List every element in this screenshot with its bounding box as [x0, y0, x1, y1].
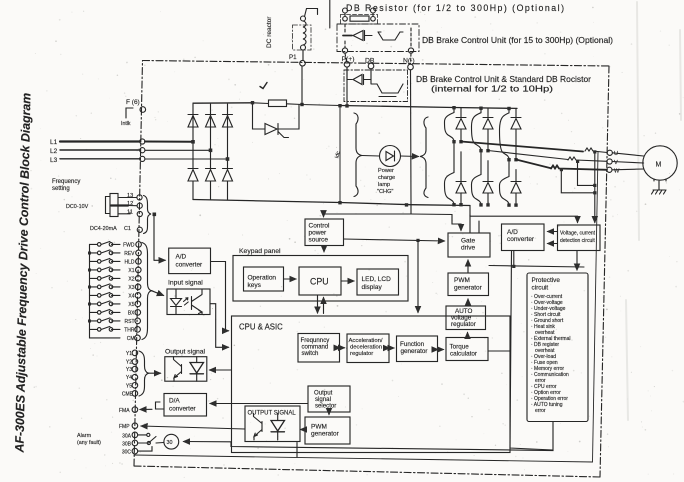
svg-text:30: 30 [167, 440, 173, 446]
power charge lamp CHG [362, 146, 419, 167]
svg-text:U: U [614, 151, 618, 157]
label DB Brake Control Unit internal [416, 75, 591, 94]
wire AUTO vreg to PWM [467, 299, 469, 306]
svg-text:drive: drive [461, 245, 475, 252]
svg-text:L1: L1 [50, 139, 58, 146]
IGBT leg2 upper transistor [472, 108, 482, 150]
svg-text:Frequency: Frequency [52, 179, 80, 185]
digital input terminals column [123, 242, 135, 342]
rectifier bridge: lower diode D6 [223, 159, 233, 200]
wire torque calc to AUTO vreg [467, 333, 469, 338]
svg-text:X1: X1 [128, 268, 134, 274]
motor ground [652, 181, 667, 194]
wire P(+) down to top bus [346, 67, 348, 106]
svg-text:X5: X5 [128, 302, 134, 308]
inverter junction dots [452, 106, 517, 207]
output signal selector box [308, 386, 350, 412]
rectifier bridge: upper diode D1 [188, 115, 198, 128]
alarm relay terminals [122, 433, 132, 455]
svg-text:lamp: lamp [378, 182, 390, 188]
phase V output wire [488, 151, 607, 162]
terminal 12 [127, 201, 142, 208]
svg-text:"CHG": "CHG" [377, 189, 393, 195]
input signal box [167, 289, 210, 315]
top DC bus (right section) [340, 106, 517, 109]
wires CPU to CPU&ASIC [318, 295, 324, 313]
wire control power to gate drive [344, 239, 445, 241]
capacitor bank right plate (brace) [420, 117, 433, 198]
terminal C1 [137, 227, 142, 232]
enclosure outer dash-dot border [134, 61, 609, 478]
wire operation keys to CPU [284, 278, 297, 280]
wire freq cmd to accel [340, 347, 345, 349]
svg-text:DB Resistor (for 1/2 to 300Hp): DB Resistor (for 1/2 to 300Hp) (Optional… [346, 3, 564, 13]
svg-text:regulator: regulator [350, 351, 373, 357]
A/D converter box (left) [169, 248, 211, 274]
wire OUTPUT SIGNAL box down [296, 443, 298, 458]
svg-text:setting: setting [52, 186, 70, 192]
CPU box [299, 267, 341, 295]
gate drive box [448, 233, 490, 257]
A/D converter box (right) [502, 224, 545, 251]
svg-text:source: source [309, 237, 329, 244]
phase W output wire [516, 160, 607, 170]
wire CPU to LED LCD [342, 280, 355, 282]
IGBT leg3 lower freewheel diode [511, 170, 521, 205]
svg-text:REV: REV [124, 251, 135, 257]
svg-text:DC reactor: DC reactor [266, 16, 273, 48]
svg-text:HLD: HLD [124, 259, 134, 265]
wire selector to PWM generator bottom [328, 413, 330, 415]
IGBT leg2 upper freewheel diode [483, 108, 493, 150]
bypass SCR [253, 103, 300, 138]
stray vertical mark above DB resistor [329, 0, 331, 28]
svg-text:keys: keys [248, 282, 262, 289]
frequency command switch box [298, 334, 340, 363]
output terminal circles [132, 350, 138, 396]
svg-text:FWD: FWD [123, 242, 135, 248]
wire N(-) down to bottom bus [410, 70, 413, 205]
svg-text:BX: BX [128, 310, 135, 316]
svg-text:generator: generator [311, 431, 340, 438]
svg-text:30A: 30A [122, 433, 132, 439]
alarm label [77, 433, 101, 446]
internal DB brake unit dash-dot box [344, 70, 408, 102]
svg-text:(any fault): (any fault) [77, 440, 101, 446]
svg-text:DC4-20mA: DC4-20mA [90, 226, 117, 232]
svg-text:AF-300ES Adjustable Frequency: AF-300ES Adjustable Frequency Drive Cont… [12, 93, 33, 454]
switch common bus [88, 244, 120, 338]
relay contacts [138, 433, 164, 451]
svg-text:power: power [309, 230, 328, 237]
PWM generator box (bottom) [305, 417, 350, 444]
wire A/D left into CPU&ASIC [211, 262, 229, 331]
wire P1 down to DC bus [302, 66, 340, 106]
digital input terminal circles [135, 242, 142, 341]
wire protective circuit to alarm relay [184, 422, 554, 451]
IGBT leg3 lower transistor [500, 159, 510, 205]
svg-text:Control: Control [309, 223, 331, 230]
svg-text:error: error [535, 408, 546, 414]
svg-text:30B: 30B [122, 442, 132, 448]
svg-text:Y2: Y2 [126, 360, 132, 366]
svg-text:DC0-10V: DC0-10V [66, 204, 89, 210]
optional brake unit transistor [378, 32, 403, 40]
svg-text:circuit: circuit [532, 285, 549, 292]
motor M [612, 146, 677, 181]
svg-text:F (6): F (6) [126, 99, 140, 106]
wire inputs to input signal box [152, 291, 164, 296]
alarm relay coil 30 [164, 434, 179, 449]
svg-text:P1: P1 [289, 54, 297, 61]
svg-text:generator: generator [454, 285, 483, 292]
IGBT leg1 lower transistor [445, 142, 455, 205]
wire DC bus to gate drive power [411, 214, 461, 231]
IGBT leg1 lower freewheel diode [456, 152, 466, 205]
svg-text:selector: selector [315, 403, 336, 410]
IGBT leg2 lower transistor [472, 150, 482, 204]
IGBT leg1 upper freewheel diode [456, 108, 466, 142]
IGBT leg3 upper transistor [500, 108, 510, 159]
svg-text:FMA: FMA [119, 408, 130, 414]
brace grouping output terminals [139, 351, 149, 396]
svg-text:Acceleration/: Acceleration/ [349, 338, 383, 344]
svg-text:DB Brake Control Unit (for 15: DB Brake Control Unit (for 15 to 300Hp) … [422, 36, 613, 45]
svg-text:Torque: Torque [450, 344, 470, 351]
wire DC bus to control power source [324, 205, 412, 217]
terminal FMA [119, 407, 138, 414]
protective circuit box [527, 273, 588, 422]
rectifier bridge: upper diode D2 [206, 115, 216, 128]
terminal 13 [127, 193, 142, 200]
wire D/A to FMA [140, 402, 164, 410]
svg-text:Gate: Gate [461, 238, 475, 245]
wire input signal into CPU&ASIC [210, 304, 229, 348]
artifact check mark [260, 83, 267, 89]
wire torque calc bottom loop [488, 251, 553, 450]
svg-text:OUTPUT SIGNAL: OUTPUT SIGNAL [248, 411, 297, 417]
svg-text:(internal for 1/2 to 10Hp): (internal for 1/2 to 10Hp) [431, 85, 553, 94]
svg-text:A/D: A/D [507, 229, 518, 236]
terminal W [607, 167, 620, 174]
svg-text:X3: X3 [128, 285, 134, 291]
keypad panel box [233, 248, 408, 301]
svg-text:V: V [614, 160, 618, 166]
svg-text:Keypad panel: Keypad panel [239, 248, 281, 255]
junction dot and wire down to CPU & ASIC [416, 239, 419, 313]
svg-text:Protective: Protective [532, 277, 561, 284]
junction to A/D [153, 213, 166, 261]
LED LCD display box [357, 269, 399, 295]
svg-text:deceleration: deceleration [350, 345, 382, 351]
DB brake control unit (optional) dashed box [337, 24, 419, 52]
terminal L3 [140, 156, 145, 161]
svg-text:30C: 30C [122, 450, 132, 456]
svg-text:CM: CM [127, 336, 135, 342]
charging resistor R [253, 100, 303, 107]
svg-text:FMP: FMP [119, 424, 130, 430]
svg-text:CPU: CPU [310, 277, 329, 287]
fuse terminal F(6) [121, 99, 146, 127]
svg-text:Y1: Y1 [126, 351, 132, 357]
svg-text:X4: X4 [128, 293, 134, 299]
svg-text:DB Brake Control Unit & Standa: DB Brake Control Unit & Standard DB Roci… [416, 75, 591, 84]
wire outputs brace to box [149, 372, 161, 374]
alarm terminal circles [132, 432, 138, 454]
svg-text:PWM: PWM [311, 424, 327, 431]
svg-text:D/A: D/A [169, 398, 180, 405]
input line L1 [50, 104, 193, 146]
bottom DC bus [193, 200, 470, 206]
svg-text:13: 13 [127, 193, 133, 199]
DB resistor (external, optional) [341, 8, 378, 24]
svg-text:A/D: A/D [176, 254, 187, 261]
optional brake unit terminals [342, 24, 413, 64]
svg-text:Y3: Y3 [126, 367, 132, 373]
OUTPUT SIGNAL box [245, 406, 300, 442]
terminal L1 [140, 139, 145, 144]
svg-text:display: display [362, 284, 383, 291]
wire voltage detection down to protective circuit [576, 251, 578, 270]
svg-text:converter: converter [176, 262, 204, 269]
svg-text:switch: switch [302, 350, 319, 357]
enclosure inner solid border (right and bottom) [134, 152, 598, 462]
current sense wire from bus [470, 206, 578, 223]
gate wires to inverter [470, 215, 479, 233]
svg-text:converter: converter [169, 406, 197, 413]
terminal FMP and wire [119, 423, 245, 430]
DC reactor (external, optional) [266, 9, 318, 61]
junction dots on input lines [191, 140, 229, 161]
label DC4-20mA C1 [90, 226, 131, 232]
capacitor bank left plate (brace) [340, 106, 362, 203]
input line L2 [50, 104, 211, 155]
control power source box [305, 219, 344, 246]
svg-text:X2: X2 [128, 276, 134, 282]
svg-text:calculator: calculator [450, 351, 477, 358]
function generator box [397, 336, 438, 362]
rectifier bridge: lower diode D4 [188, 142, 198, 200]
svg-text:L3: L3 [50, 157, 58, 164]
svg-text:C1: C1 [124, 226, 131, 232]
svg-text:Y4: Y4 [126, 375, 132, 381]
internal brake diode [347, 67, 371, 85]
IGBT leg1 upper transistor [445, 108, 455, 142]
brace grouping input terminals [142, 243, 152, 340]
svg-text:Function: Function [400, 341, 425, 348]
rectifier bridge: lower diode D5 [206, 150, 216, 199]
svg-text:Operation: Operation [248, 275, 277, 282]
torque calculator box [446, 338, 488, 361]
svg-text:Input signal: Input signal [168, 280, 203, 287]
svg-text:Power: Power [378, 168, 394, 174]
svg-text:Idc: Idc [334, 150, 342, 159]
potentiometer [106, 194, 137, 217]
terminal L2 [140, 148, 145, 153]
output terminals Y1-Y5 CME [122, 351, 134, 397]
svg-text:generator: generator [401, 348, 428, 355]
frequency setting label [52, 179, 80, 192]
internal brake transistor [371, 69, 403, 97]
terminal DB [365, 58, 375, 69]
phase U output wire [461, 142, 607, 153]
svg-text:L2: L2 [50, 148, 58, 155]
svg-text:N(-): N(-) [403, 58, 415, 65]
svg-text:charge: charge [378, 175, 395, 181]
svg-text:Alarm: Alarm [77, 433, 92, 439]
svg-text:CPU & ASIC: CPU & ASIC [239, 323, 283, 332]
AUTO voltage regulator box [446, 306, 486, 330]
svg-text:converter: converter [507, 236, 535, 243]
svg-text:11: 11 [127, 209, 133, 215]
terminal P(+) [342, 56, 355, 67]
wire CPU&ASIC to output signal box [210, 369, 232, 371]
junction dot bus/P1 [251, 101, 304, 106]
rectifier bridge: upper diode D3 [223, 115, 233, 128]
optional brake unit diode [343, 31, 372, 41]
svg-text:Intlk: Intlk [121, 121, 131, 127]
acceleration deceleration regulator box [347, 334, 389, 363]
svg-text:LED, LCD: LED, LCD [362, 276, 392, 283]
wire PWM bottom to OUTPUT SIGNAL box [301, 429, 306, 431]
svg-text:PWM: PWM [454, 277, 470, 284]
phase voltage sense taps [560, 150, 597, 222]
svg-text:THR: THR [124, 327, 135, 333]
label power charge lamp [377, 168, 395, 195]
wire accel to function gen [390, 347, 395, 349]
voltage current detection box [558, 225, 601, 251]
svg-text:regulator: regulator [451, 321, 476, 328]
CPU & ASIC box [232, 316, 511, 453]
IGBT leg3 upper freewheel diode [511, 109, 521, 160]
input line L3 [50, 104, 228, 164]
wire PWM to gate drive [467, 260, 469, 273]
wire function gen to torque calc [438, 349, 444, 351]
svg-text:M: M [656, 162, 662, 169]
terminal U [607, 150, 618, 157]
junction dots bus [338, 104, 408, 207]
svg-text:12: 12 [127, 201, 133, 207]
terminal 11 [127, 209, 142, 216]
output signal box [165, 357, 207, 382]
brace grouping frequency terminals [144, 196, 152, 234]
svg-text:RST: RST [125, 319, 135, 325]
PWM generator box (top) [448, 273, 489, 296]
svg-text:Y5: Y5 [126, 383, 132, 389]
terminal P1 [289, 54, 305, 66]
wire control power down to keypad panel [323, 246, 325, 252]
svg-text:detection circuit: detection circuit [560, 238, 595, 244]
D/A converter box [164, 394, 207, 417]
wire A/D down and to protective circuit [489, 251, 584, 269]
terminal V [607, 159, 618, 166]
svg-text:Voltage, current: Voltage, current [560, 231, 596, 237]
wire selector to D/A converter [210, 403, 308, 405]
svg-text:Output signal: Output signal [165, 349, 206, 356]
operation keys box [244, 267, 284, 291]
top DC bus from rectifier [193, 102, 253, 104]
wires voltage detection to A/D [548, 232, 558, 244]
IGBT leg2 lower freewheel diode [483, 161, 493, 205]
input switches [90, 241, 121, 331]
terminal N(-) [403, 58, 415, 70]
